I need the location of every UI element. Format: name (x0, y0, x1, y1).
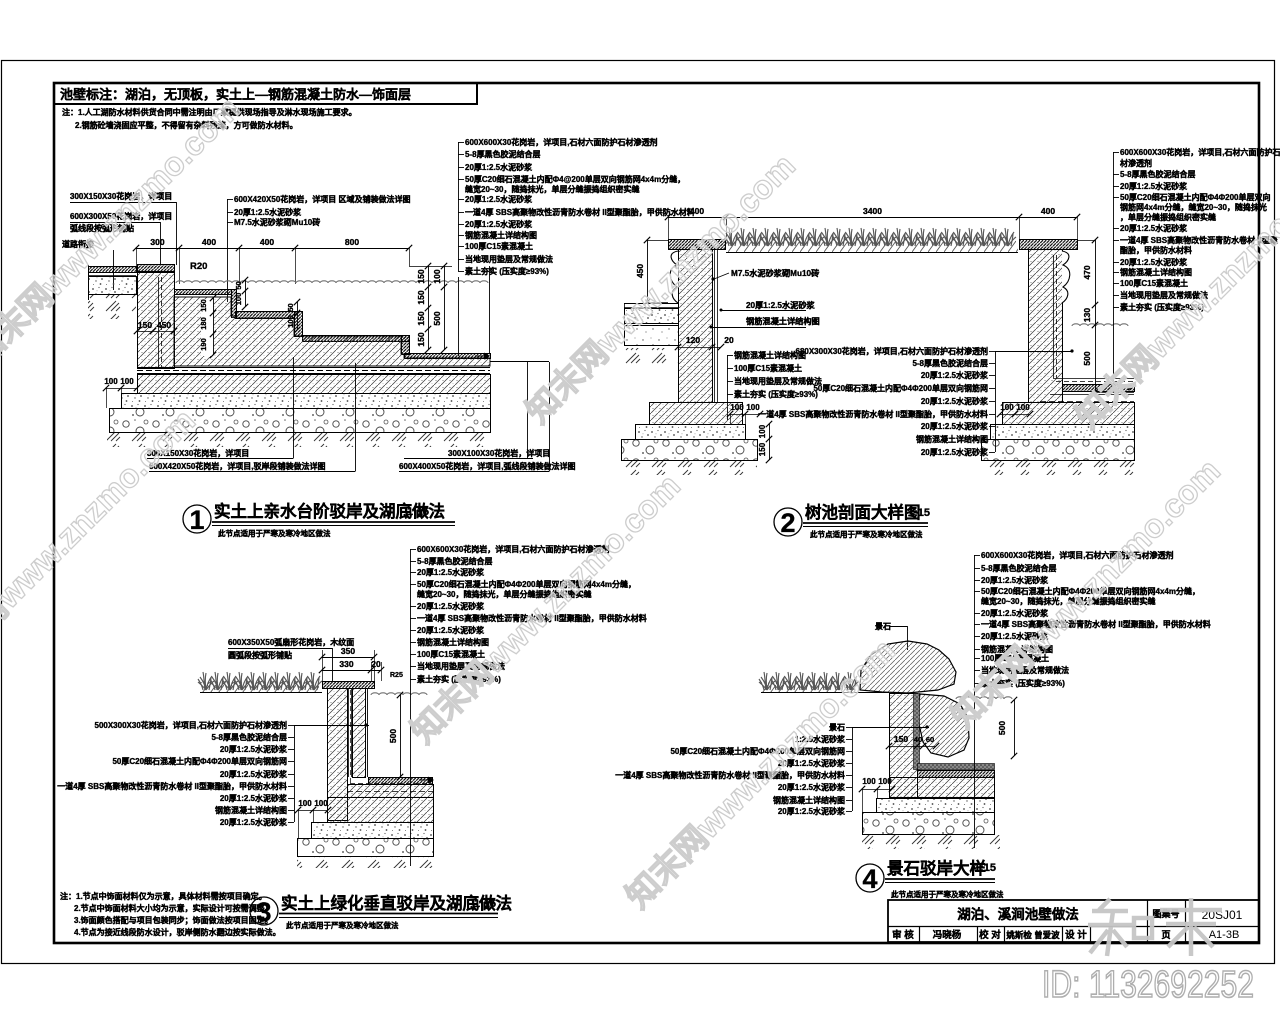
detail4 title circle 4 (856, 864, 884, 892)
svg-text:400: 400 (690, 206, 704, 216)
detail2 right footing blinding (991, 425, 1135, 440)
svg-text:100: 100 (730, 403, 744, 412)
svg-text:审 核: 审 核 (892, 929, 914, 941)
svg-text:20厚1:2.5水泥砂浆: 20厚1:2.5水泥砂浆 (921, 447, 989, 457)
svg-text:100: 100 (298, 799, 312, 808)
detail2 right material list (1113, 152, 1115, 307)
svg-text:60: 60 (926, 735, 934, 744)
svg-text:池壁标注：湖泊，无顶板，实土上—钢筋混凝土防水—饰面层: 池壁标注：湖泊，无顶板，实土上—钢筋混凝土防水—饰面层 (60, 87, 411, 102)
svg-text:50厚C20细石混凝土内配Φ4@200单层双向钢筋网4x4m: 50厚C20细石混凝土内配Φ4@200单层双向钢筋网4x4m分缝， (465, 174, 685, 184)
svg-text:页: 页 (1161, 930, 1170, 940)
svg-text:钢筋混凝土详结构图: 钢筋混凝土详结构图 (916, 434, 988, 444)
detail2 left footing (650, 403, 743, 425)
svg-text:1:15: 1:15 (474, 898, 496, 910)
svg-text:景石: 景石 (875, 621, 891, 631)
svg-text:5-8厚黑色胶泥结合层: 5-8厚黑色胶泥结合层 (912, 358, 988, 368)
svg-text:5-8厚黑色胶泥结合层: 5-8厚黑色胶泥结合层 (465, 149, 541, 159)
detail1 step tread C (236, 312, 295, 319)
detail3 gravel layer (298, 839, 434, 857)
svg-text:50厚C20细石混凝土内配Φ4Φ200单层双向钢筋网: 50厚C20细石混凝土内配Φ4Φ200单层双向钢筋网 (813, 383, 988, 393)
detail4 membrane under stone (918, 764, 995, 770)
svg-text:150: 150 (199, 299, 208, 312)
detail3 coping stone (323, 682, 375, 689)
svg-text:150: 150 (416, 290, 426, 304)
detail3 left material list (294, 725, 296, 822)
detail1 left bank mortar line (88, 275, 136, 277)
svg-text:校 对: 校 对 (979, 929, 1001, 941)
detail4 wall (890, 694, 918, 798)
svg-text:R20: R20 (190, 261, 207, 272)
svg-text:50厚C20细石混凝土内配Φ4Φ200单层双向: 50厚C20细石混凝土内配Φ4Φ200单层双向 (1120, 192, 1271, 202)
detail1 right dims 100/500 (444, 266, 446, 350)
detail3 water line (371, 693, 427, 695)
detail3 membrane (350, 690, 352, 783)
svg-text:20厚1:2.5水泥砂浆: 20厚1:2.5水泥砂浆 (465, 194, 533, 204)
svg-text:100: 100 (104, 377, 118, 386)
inner drawing frame (54, 83, 1259, 943)
detail3 under floor layers (348, 785, 434, 798)
detail2 pool water line (1072, 324, 1128, 326)
detail4 left material list (852, 727, 854, 811)
svg-text:4: 4 (862, 864, 877, 894)
svg-text:一道4厚 SBS高聚物改性沥青防水卷材 II型聚酯胎，甲供防: 一道4厚 SBS高聚物改性沥青防水卷材 II型聚酯胎，甲供防水材料 (981, 619, 1211, 629)
svg-text:ID: 1132692252: ID: 1132692252 (1042, 964, 1254, 1006)
detail3 grass row (198, 672, 214, 690)
svg-text:20厚1:2.5水泥砂浆: 20厚1:2.5水泥砂浆 (1120, 181, 1188, 191)
svg-text:120: 120 (686, 335, 700, 345)
svg-text:680X300X30花岗岩，详项目,石材六面防护石材渗透剂: 680X300X30花岗岩，详项目,石材六面防护石材渗透剂 (796, 346, 989, 356)
detail1 gravel bed layer (110, 409, 491, 433)
detail2 right height dims 470/130/500 (1077, 240, 1095, 242)
svg-text:100: 100 (432, 269, 442, 283)
svg-text:20厚1:2.5水泥砂浆: 20厚1:2.5水泥砂浆 (234, 207, 302, 217)
detail2 right footing soil (981, 461, 1139, 475)
svg-text:330: 330 (339, 659, 353, 669)
detail2 mid material list (727, 355, 729, 394)
svg-text:一道4厚 SBS高聚物改性沥青防水卷材 II型聚酯胎，甲供防: 一道4厚 SBS高聚物改性沥青防水卷材 II型聚酯胎，甲供防水材料 (57, 781, 287, 791)
detail1 step riser B (232, 290, 237, 318)
detail2 left ground bedding (625, 309, 679, 324)
svg-text:100: 100 (1016, 403, 1030, 412)
detail2 pool slope arrow (1119, 384, 1133, 390)
svg-text:20厚1:2.5水泥砂浆: 20厚1:2.5水泥砂浆 (921, 396, 989, 406)
svg-text:100厚C15素混凝土: 100厚C15素混凝土 (1120, 278, 1188, 288)
svg-text:350: 350 (341, 646, 355, 656)
detail3 wall facing layer (353, 689, 366, 778)
detail3 top dims 350/330/20 (322, 657, 374, 659)
detail1 top step coping stone (138, 265, 175, 272)
svg-text:3400: 3400 (863, 206, 882, 216)
svg-text:材渗透剂: 材渗透剂 (1120, 158, 1152, 168)
detail1 lake bottom slope arrow (475, 353, 489, 359)
detail1 left bank concrete layer (89, 277, 137, 295)
svg-text:20: 20 (724, 335, 734, 345)
svg-text:1:15: 1:15 (407, 506, 429, 518)
svg-text:注：1.节点中饰面材料仅为示意，具体材料需按项目确定。: 注：1.节点中饰面材料仅为示意，具体材料需按项目确定。 (60, 891, 267, 901)
svg-text:600X350X50弧扇形花岗岩，木纹面: 600X350X50弧扇形花岗岩，木纹面 (228, 637, 354, 647)
svg-text:180: 180 (199, 317, 208, 330)
svg-text:钢筋混凝土详结构图: 钢筋混凝土详结构图 (215, 805, 287, 815)
svg-text:20厚1:2.5水泥砂浆: 20厚1:2.5水泥砂浆 (220, 817, 288, 827)
svg-text:20厚1:2.5水泥砂浆: 20厚1:2.5水泥砂浆 (417, 625, 485, 635)
svg-text:20厚1:2.5水泥砂浆: 20厚1:2.5水泥砂浆 (921, 421, 989, 431)
svg-text:450: 450 (157, 320, 171, 330)
svg-text:素土夯实 (压实度≥93%): 素土夯实 (压实度≥93%) (465, 266, 549, 276)
svg-text:500: 500 (997, 721, 1007, 735)
detail1 left bank coping stone (89, 267, 137, 273)
svg-text:20: 20 (371, 659, 381, 669)
svg-text:600X420X50花岗岩，详项目 区域及铺装做法详图: 600X420X50花岗岩，详项目 区域及铺装做法详图 (234, 194, 411, 204)
svg-text:500: 500 (1082, 351, 1092, 365)
detail3 right material list (410, 549, 412, 679)
detail2 left footing 100/150 dims (769, 424, 771, 460)
svg-text:20厚1:2.5水泥砂浆: 20厚1:2.5水泥砂浆 (778, 782, 846, 792)
detail4 soil hatch (862, 835, 1000, 849)
detail1 step riser C (295, 312, 303, 337)
detail2 left footing soil (621, 461, 757, 475)
svg-text:100: 100 (314, 799, 328, 808)
detail1 left bank soil hatch (88, 295, 136, 319)
detail4 pool floor slab (918, 771, 995, 778)
detail2 left ground pavement (624, 303, 678, 305)
detail1 title circle 1 (183, 505, 211, 533)
svg-text:4.节点为接近线段防水设计，驳岸侧防水翻边按实际做法。: 4.节点为接近线段防水设计，驳岸侧防水翻边按实际做法。 (74, 927, 281, 937)
detail1 step riser D (402, 336, 410, 355)
detail4 right material list (974, 555, 976, 683)
svg-text:600X600X30花岗岩，详项目,石材六面防护石: 600X600X30花岗岩，详项目,石材六面防护石 (1120, 147, 1280, 157)
svg-text:400: 400 (202, 237, 216, 247)
svg-text:当地现用垫层及常规做法: 当地现用垫层及常规做法 (465, 254, 553, 264)
detail4 water depth dim 500 (1014, 700, 1016, 756)
svg-text:500: 500 (432, 311, 442, 325)
detail4 big landscape stone (860, 641, 956, 693)
detail1 riser dims 50/100 step B (245, 280, 247, 307)
svg-text:300: 300 (150, 237, 164, 247)
detail1 step tread D (303, 336, 410, 342)
svg-text:300X100X30花岗岩，详项目: 300X100X30花岗岩，详项目 (448, 448, 550, 458)
svg-text:素土夯实 (压实度≥93%): 素土夯实 (压实度≥93%) (734, 389, 818, 399)
svg-text:5-8厚黑色胶泥结合层: 5-8厚黑色胶泥结合层 (211, 732, 287, 742)
svg-text:150: 150 (758, 442, 767, 456)
svg-text:130: 130 (1082, 308, 1092, 322)
svg-text:圆弧段按弧形铺贴: 圆弧段按弧形铺贴 (228, 650, 292, 660)
svg-text:景石驳岸大样: 景石驳岸大样 (887, 858, 986, 878)
detail3 footing (328, 798, 434, 823)
svg-text:20厚1:2.5水泥砂浆: 20厚1:2.5水泥砂浆 (746, 300, 816, 310)
detail1 step height dims 150 (409, 266, 452, 268)
detail1 blinding concrete layer (122, 394, 491, 409)
svg-text:缝宽20~30，随捣抹光，单层分缝振捣组织密实缝: 缝宽20~30，随捣抹光，单层分缝振捣组织密实缝 (465, 184, 639, 194)
detail2 top dimension 400/3400/400 (668, 217, 1077, 219)
svg-text:M7.5水泥砂浆砌Mu10砖: M7.5水泥砂浆砌Mu10砖 (731, 268, 820, 278)
svg-text:姚斯检 曾爱波: 姚斯检 曾爱波 (1005, 930, 1060, 940)
detail2 left footing blinding (636, 425, 746, 440)
svg-text:M7.5水泥砂浆砌Mu10砖: M7.5水泥砂浆砌Mu10砖 (234, 217, 320, 227)
detail1 wall waterproof membrane (158, 277, 160, 368)
svg-text:470: 470 (1082, 265, 1092, 279)
svg-text:100: 100 (758, 424, 767, 438)
detail4 small stone (918, 694, 969, 757)
svg-text:一道4厚 SBS高聚物改性沥青防水卷材 II型聚酯胎，甲供防: 一道4厚 SBS高聚物改性沥青防水卷材 II型聚酯胎，甲供防水材料 (465, 207, 695, 217)
svg-text:酯胎，甲供防水材料: 酯胎，甲供防水材料 (1120, 245, 1192, 255)
svg-text:5-8厚黑色胶泥结合层: 5-8厚黑色胶泥结合层 (981, 563, 1057, 573)
svg-text:150: 150 (894, 734, 908, 744)
svg-text:钢筋混凝土详结构图: 钢筋混凝土详结构图 (1120, 267, 1192, 277)
svg-text:R25: R25 (390, 672, 403, 679)
svg-text:20厚1:2.5水泥砂浆: 20厚1:2.5水泥砂浆 (1120, 257, 1188, 267)
detail2 planting strip grass (724, 228, 740, 246)
svg-text:20厚1:2.5水泥砂浆: 20厚1:2.5水泥砂浆 (465, 162, 533, 172)
svg-text:20厚1:2.5水泥砂浆: 20厚1:2.5水泥砂浆 (778, 806, 846, 816)
detail2 right wall moulding (1062, 251, 1070, 303)
detail3 blinding layer (312, 823, 434, 839)
detail3 water depth dim 500 (400, 695, 402, 777)
svg-text:450: 450 (635, 264, 645, 278)
svg-text:钢筋混凝土详结构图: 钢筋混凝土详结构图 (417, 637, 489, 647)
detail1 center annotations 600X420X50 (227, 199, 229, 222)
detail3 pool bottom slab (369, 778, 433, 785)
svg-text:100: 100 (234, 293, 243, 306)
detail2 under-floor layers (1050, 394, 1134, 396)
svg-text:20厚1:2.5水泥砂浆: 20厚1:2.5水泥砂浆 (981, 575, 1049, 585)
svg-text:3.饰面颜色搭配与项目包装同步；饰面做法按项目固定。: 3.饰面颜色搭配与项目包装同步；饰面做法按项目固定。 (74, 915, 273, 926)
svg-text:1: 1 (189, 505, 204, 535)
detail2 left wall (679, 250, 713, 403)
svg-text:100: 100 (286, 315, 295, 328)
svg-text:当地现用垫层及常规做法: 当地现用垫层及常规做法 (734, 376, 822, 386)
svg-text:此节点适用于严寒及寒冷地区做法: 此节点适用于严寒及寒冷地区做法 (891, 889, 1004, 899)
svg-text:钢筋混凝土详结构图: 钢筋混凝土详结构图 (746, 316, 820, 326)
svg-text:湖泊、溪涧池壁做法: 湖泊、溪涧池壁做法 (957, 906, 1079, 922)
svg-text:150: 150 (416, 311, 426, 325)
detail2 right wall membrane (1053, 255, 1055, 378)
svg-text:树池剖面大样图: 树池剖面大样图 (805, 502, 921, 522)
svg-text:设 计: 设 计 (1065, 929, 1087, 941)
detail1 top dimension line 300/400/400/800 (136, 248, 409, 250)
svg-text:20厚1:2.5水泥砂浆: 20厚1:2.5水泥砂浆 (220, 744, 288, 754)
svg-text:500X300X30花岗岩，详项目,石材六面防护石材渗透剂: 500X300X30花岗岩，详项目,石材六面防护石材渗透剂 (95, 720, 288, 730)
svg-text:冯晓杨: 冯晓杨 (933, 929, 962, 941)
svg-text:1:15: 1:15 (974, 862, 996, 874)
svg-text:100: 100 (878, 777, 892, 786)
svg-text:150: 150 (416, 269, 426, 283)
detail3 wall (328, 689, 348, 821)
detail1 right material list (458, 142, 460, 271)
detail3 soil hatch (297, 857, 435, 868)
detail4 gravel layer (863, 813, 995, 835)
svg-text:600X420X50花岗岩，详项目,驳岸段铺装做法详图: 600X420X50花岗岩，详项目,驳岸段铺装做法详图 (149, 461, 326, 471)
detail2 center material list (995, 351, 997, 452)
detail2 pool bottom slab (1063, 385, 1135, 392)
detail2 left ground soil hatch (624, 348, 678, 364)
svg-text:150: 150 (416, 332, 426, 346)
svg-text:20厚1:2.5水泥砂浆: 20厚1:2.5水泥砂浆 (220, 769, 288, 779)
svg-text:600X600X30花岗岩，详项目,石材六面防护石材渗透剂: 600X600X30花岗岩，详项目,石材六面防护石材渗透剂 (465, 137, 658, 147)
detail1 subsoil hatch (107, 433, 492, 447)
svg-text:20厚1:2.5水泥砂浆: 20厚1:2.5水泥砂浆 (921, 370, 989, 380)
svg-text:钢筋混凝土详结构图: 钢筋混凝土详结构图 (773, 795, 845, 805)
detail2 right footing (1003, 403, 1135, 425)
detail4 footing blinding (877, 799, 995, 813)
svg-text:20厚1:2.5水泥砂浆: 20厚1:2.5水泥砂浆 (417, 567, 485, 577)
detail2 right coping stone (1020, 240, 1078, 250)
svg-text:50: 50 (286, 303, 295, 311)
detail1 wall (138, 273, 175, 369)
detail3 slope arrow (419, 777, 433, 783)
detail1 riser dims 50/100 step C (297, 302, 299, 330)
detail1 water line (176, 281, 488, 283)
svg-text:一道4厚 SBS高聚物改性沥青防水卷材 II型聚酯胎，甲供防: 一道4厚 SBS高聚物改性沥青防水卷材 II型聚酯胎，甲供防水材料 (758, 409, 988, 419)
detail2 title circle 2 (774, 508, 802, 536)
svg-text:钢筋混凝土详结构图: 钢筋混凝土详结构图 (465, 230, 537, 240)
svg-text:800: 800 (345, 237, 359, 247)
detail1 internal step dims 150/180/190 (201, 299, 214, 356)
svg-text:50厚C20细石混凝土内配Φ4Φ200单层双向钢筋网4x4m: 50厚C20细石混凝土内配Φ4Φ200单层双向钢筋网4x4m分缝， (417, 579, 636, 589)
detail1 base concrete slab (138, 375, 491, 394)
svg-text:400: 400 (1041, 206, 1055, 216)
svg-text:20厚1:2.5水泥砂浆: 20厚1:2.5水泥砂浆 (1120, 223, 1188, 233)
header title box (54, 83, 477, 104)
svg-text:5-8厚黑色胶泥结合层: 5-8厚黑色胶泥结合层 (417, 556, 493, 566)
svg-text:100: 100 (862, 777, 876, 786)
svg-text:50: 50 (234, 281, 243, 289)
detail2 left ground sub layer (625, 326, 679, 346)
detail2 left coping stone (669, 240, 726, 250)
svg-text:此节点适用于严寒及寒冷地区做法: 此节点适用于严寒及寒冷地区做法 (810, 529, 923, 539)
svg-text:100: 100 (120, 377, 134, 386)
detail2 left wall moulding (670, 251, 678, 303)
svg-text:5-8厚黑色胶泥结合层: 5-8厚黑色胶泥结合层 (1120, 169, 1196, 179)
svg-text:400: 400 (260, 237, 274, 247)
detail4 membrane on wall face (914, 694, 920, 770)
detail4 grass row (759, 672, 775, 690)
svg-text:20厚1:2.5水泥砂浆: 20厚1:2.5水泥砂浆 (220, 793, 288, 803)
detail2 450 height dim (647, 240, 668, 242)
svg-text:1:15: 1:15 (908, 507, 930, 519)
svg-text:20厚1:2.5水泥砂浆: 20厚1:2.5水泥砂浆 (417, 601, 485, 611)
detail1 leader drops to lake floor (293, 357, 295, 459)
detail2 right wall (1029, 250, 1063, 403)
svg-text:A1-3B: A1-3B (1209, 929, 1240, 941)
detail2 right footing gravel (982, 440, 1135, 461)
svg-text:2: 2 (780, 508, 795, 538)
svg-text:，单层分缝振捣组织密实缝: ，单层分缝振捣组织密实缝 (1120, 212, 1216, 222)
detail3 title circle 3 (250, 897, 278, 925)
svg-text:此节点适用于严寒及寒冷地区做法: 此节点适用于严寒及寒冷地区做法 (218, 528, 331, 538)
svg-text:100厚C15素混凝土: 100厚C15素混凝土 (734, 363, 802, 373)
detail1 step tread B (175, 290, 232, 295)
big zhimo watermark (1088, 898, 1222, 956)
svg-text:40: 40 (914, 735, 922, 744)
svg-text:此节点适用于严寒及寒冷地区做法: 此节点适用于严寒及寒冷地区做法 (286, 920, 399, 930)
detail2 left footing gravel (622, 440, 758, 461)
detail1 concrete mass under steps (174, 297, 490, 366)
svg-text:100厚C15素混凝土: 100厚C15素混凝土 (465, 241, 533, 251)
title block frame (888, 900, 1259, 942)
svg-text:50厚C20细石混凝土内配Φ4Φ200单层双向钢筋网: 50厚C20细石混凝土内配Φ4Φ200单层双向钢筋网 (112, 756, 287, 766)
svg-text:2.节点中饰面材料大小均为示意，实际设计可按需调整。: 2.节点中饰面材料大小均为示意，实际设计可按需调整。 (74, 903, 273, 913)
detail1 lake bottom stone slab (405, 354, 491, 359)
svg-text:钢筋网4x4m分缝，缝宽20~30，随捣抹光: 钢筋网4x4m分缝，缝宽20~30，随捣抹光 (1120, 202, 1267, 212)
svg-text:20厚1:2.5水泥砂浆: 20厚1:2.5水泥砂浆 (465, 219, 533, 229)
svg-text:190: 190 (199, 338, 208, 351)
detail4 under floor concrete (890, 778, 995, 798)
svg-text:100: 100 (1000, 403, 1014, 412)
svg-text:600X400X50花岗岩，详项目,弧线段铺装做法详图: 600X400X50花岗岩，详项目,弧线段铺装做法详图 (399, 461, 576, 471)
svg-text:500: 500 (388, 729, 398, 743)
detail1 membrane under base (137, 367, 490, 369)
detail4 water line (956, 697, 1012, 699)
